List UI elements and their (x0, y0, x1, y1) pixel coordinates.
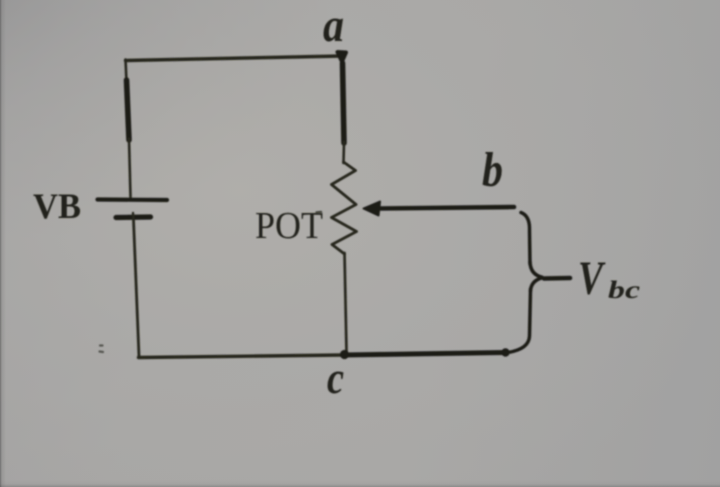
blob at right end of bottom wire (501, 348, 509, 356)
brace top hook from b wire end (521, 213, 530, 265)
battery VB long plate (98, 197, 168, 202)
svg-text:a: a (323, 0, 344, 52)
battery VB short plate (116, 214, 151, 220)
tick from brace point to Vbc label (544, 276, 570, 281)
node a junction dot (338, 52, 347, 62)
wire left vertical upper thin (126, 60, 127, 83)
svg-text:bc: bc (608, 277, 640, 304)
svg-text:c: c (327, 353, 344, 403)
wire thin into potentiometer (342, 142, 345, 163)
wire below battery down to bottom corner (134, 220, 140, 357)
wire node c to brace bottom (thick) (344, 353, 505, 356)
battery short plate center stub (132, 213, 135, 219)
node c junction dot (340, 350, 349, 359)
wire below potentiometer to node c (345, 253, 347, 352)
brace middle point toward Vbc (530, 262, 543, 291)
speck left of bottom wire (100, 346, 104, 353)
wire node a down thick segment (343, 63, 345, 143)
svg-text:POT: POT (255, 205, 323, 247)
svg-text:b: b (482, 142, 503, 197)
wire bottom left corner to node c (139, 355, 345, 358)
speck left of zigzag (317, 211, 322, 214)
svg-text:V: V (578, 252, 606, 305)
wiper arrowhead pointing left at zigzag (364, 202, 381, 216)
svg-text:VB: VB (33, 186, 81, 226)
wire left vertical to battery top plate (129, 139, 131, 197)
wire top horizontal a to left corner (126, 56, 343, 61)
potentiometer POT zigzag body (332, 162, 357, 254)
wiper arrow shaft from node b wire (378, 207, 514, 209)
brace bottom hook to c wire end (508, 289, 531, 353)
wire left thick overdrawn segment (127, 80, 130, 140)
